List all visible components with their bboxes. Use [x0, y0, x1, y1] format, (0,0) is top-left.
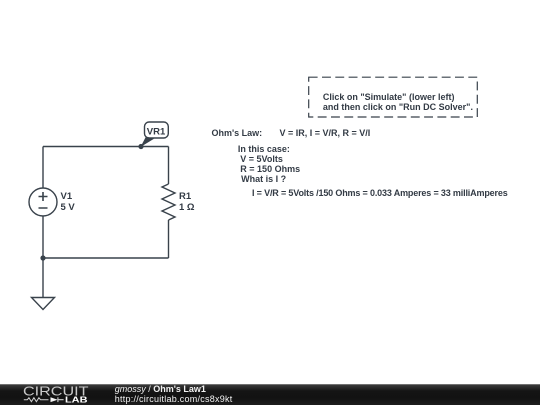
- svg-text:VR1: VR1: [147, 127, 166, 138]
- wire: bottom horizontal: [43, 257, 169, 259]
- annotation box text: [323, 92, 473, 112]
- footer url line: [115, 395, 233, 404]
- svg-text:LAB: LAB: [65, 395, 88, 404]
- CircuitLab logo: [0, 384, 110, 405]
- annotation: result: [252, 188, 508, 198]
- wire: left vertical upper: [42, 147, 44, 189]
- label R1 value: [179, 192, 195, 213]
- voltage source V1: [29, 188, 57, 216]
- wire: ground stem: [42, 258, 44, 297]
- footer bar: [0, 384, 540, 405]
- footer title line: [115, 385, 206, 394]
- resistor R1: [162, 184, 175, 220]
- probe VR1 box: [145, 122, 169, 138]
- annotation: Ohm's Law line: [212, 128, 263, 138]
- wire: right vertical upper: [168, 147, 170, 185]
- annotation: in this case: [238, 144, 290, 154]
- logo resistor+diode squiggle: [24, 398, 49, 402]
- wire: top horizontal: [43, 146, 169, 148]
- node junction dot: [40, 255, 45, 260]
- wire: left vertical lower: [42, 216, 44, 258]
- probe VR1 tail: [141, 137, 155, 148]
- ground: [32, 298, 55, 310]
- annotation dashed box: [304, 73, 484, 123]
- wire: right vertical lower: [168, 220, 170, 258]
- label V1 value: [61, 192, 75, 213]
- probe node dot: [138, 144, 143, 149]
